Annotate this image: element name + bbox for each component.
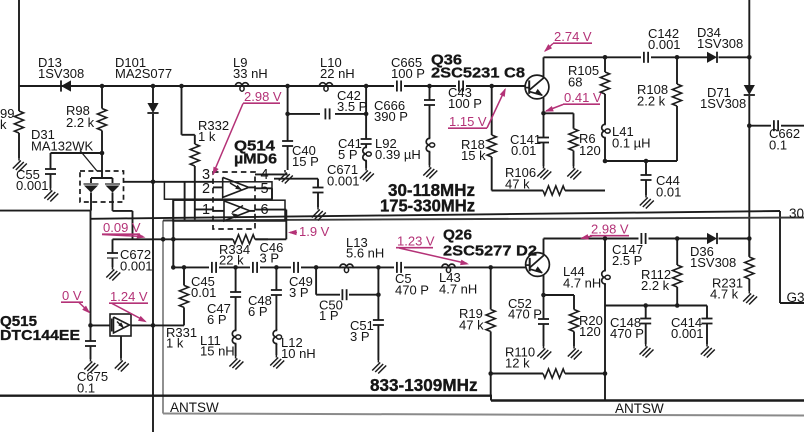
svg-text:3 P: 3 P bbox=[260, 251, 280, 266]
svg-text:5 P: 5 P bbox=[338, 147, 358, 162]
svg-text:0.41 V: 0.41 V bbox=[564, 90, 602, 105]
svg-text:ANTSW: ANTSW bbox=[170, 400, 219, 415]
svg-text:15 P: 15 P bbox=[292, 154, 319, 169]
svg-text:DTC144EE: DTC144EE bbox=[0, 327, 80, 344]
svg-text:3.5 P: 3.5 P bbox=[337, 99, 367, 114]
svg-text:0.001: 0.001 bbox=[327, 174, 360, 189]
svg-text:3 P: 3 P bbox=[350, 329, 370, 344]
svg-text:0.01: 0.01 bbox=[656, 185, 681, 200]
svg-text:2.2 k: 2.2 k bbox=[641, 278, 670, 293]
svg-text:300: 300 bbox=[789, 206, 804, 221]
svg-text:6 P: 6 P bbox=[207, 312, 227, 327]
svg-text:470 P: 470 P bbox=[395, 283, 429, 298]
svg-text:47 k: 47 k bbox=[505, 177, 530, 192]
svg-text:833-1309MHz: 833-1309MHz bbox=[370, 375, 478, 395]
svg-text:4.7 nH: 4.7 nH bbox=[439, 282, 477, 297]
svg-text:1.9 V: 1.9 V bbox=[299, 224, 330, 239]
svg-text:1SV308: 1SV308 bbox=[697, 36, 743, 51]
svg-text:100 P: 100 P bbox=[391, 66, 425, 81]
svg-text:0.39 µH: 0.39 µH bbox=[375, 147, 421, 162]
svg-text:15 nH: 15 nH bbox=[200, 344, 235, 359]
svg-text:2.2 k: 2.2 k bbox=[66, 115, 95, 130]
svg-text:0.01: 0.01 bbox=[511, 143, 536, 158]
svg-text:22 k: 22 k bbox=[219, 253, 244, 268]
svg-text:2: 2 bbox=[202, 181, 210, 197]
svg-text:0.001: 0.001 bbox=[16, 178, 49, 193]
svg-text:G3: G3 bbox=[787, 290, 804, 305]
svg-text:0.01: 0.01 bbox=[191, 285, 216, 300]
svg-text:120: 120 bbox=[579, 143, 601, 158]
svg-text:15 k: 15 k bbox=[461, 148, 486, 163]
svg-text:Q26: Q26 bbox=[443, 227, 472, 244]
svg-text:22 nH: 22 nH bbox=[320, 66, 355, 81]
svg-text:1SV308: 1SV308 bbox=[700, 96, 746, 111]
svg-text:1 P: 1 P bbox=[319, 308, 339, 323]
svg-text:0.001: 0.001 bbox=[671, 326, 704, 341]
svg-text:0.1: 0.1 bbox=[77, 381, 95, 396]
svg-text:ANTSW: ANTSW bbox=[615, 401, 664, 416]
svg-text:0.1: 0.1 bbox=[769, 138, 787, 153]
svg-text:33 nH: 33 nH bbox=[233, 66, 268, 81]
svg-text:µMD6: µMD6 bbox=[234, 151, 277, 168]
svg-text:2.98 V: 2.98 V bbox=[244, 89, 282, 104]
svg-text:100 P: 100 P bbox=[448, 96, 482, 111]
svg-text:0.09 V: 0.09 V bbox=[103, 220, 141, 235]
svg-text:1 k: 1 k bbox=[166, 336, 184, 351]
svg-text:MA132WK: MA132WK bbox=[31, 139, 93, 154]
svg-text:175-330MHz: 175-330MHz bbox=[380, 196, 475, 216]
svg-text:k: k bbox=[0, 117, 7, 132]
svg-text:1SV308: 1SV308 bbox=[690, 255, 736, 270]
svg-text:1: 1 bbox=[202, 202, 210, 218]
svg-text:2.98 V: 2.98 V bbox=[591, 222, 629, 237]
svg-text:5.6 nH: 5.6 nH bbox=[346, 246, 384, 261]
svg-text:0 V: 0 V bbox=[62, 288, 82, 303]
svg-text:MA2S077: MA2S077 bbox=[115, 66, 172, 81]
svg-text:2.74 V: 2.74 V bbox=[554, 29, 592, 44]
svg-text:10 nH: 10 nH bbox=[281, 346, 316, 361]
svg-text:2SC5277 D2: 2SC5277 D2 bbox=[443, 243, 537, 260]
svg-text:1SV308: 1SV308 bbox=[38, 66, 84, 81]
svg-text:4.7 nH: 4.7 nH bbox=[563, 276, 601, 291]
svg-text:6 P: 6 P bbox=[248, 304, 268, 319]
svg-text:1.23 V: 1.23 V bbox=[397, 234, 435, 249]
svg-text:470 P: 470 P bbox=[610, 326, 644, 341]
svg-text:5: 5 bbox=[261, 181, 269, 197]
svg-text:3 P: 3 P bbox=[289, 285, 309, 300]
svg-text:0.001: 0.001 bbox=[120, 259, 153, 274]
svg-text:47 k: 47 k bbox=[459, 318, 484, 333]
svg-text:1.15 V: 1.15 V bbox=[449, 114, 487, 129]
svg-text:1.24 V: 1.24 V bbox=[110, 289, 148, 304]
svg-text:4.7 k: 4.7 k bbox=[710, 287, 739, 302]
svg-text:6: 6 bbox=[261, 202, 269, 218]
svg-text:2SC5231 C8: 2SC5231 C8 bbox=[431, 65, 525, 82]
svg-text:0.1 µH: 0.1 µH bbox=[612, 136, 651, 151]
svg-text:120: 120 bbox=[579, 324, 601, 339]
svg-text:1 k: 1 k bbox=[198, 129, 216, 144]
svg-text:2.2 k: 2.2 k bbox=[637, 94, 666, 109]
svg-text:2.5 P: 2.5 P bbox=[612, 253, 642, 268]
svg-text:0.001: 0.001 bbox=[648, 37, 681, 52]
svg-text:12 k: 12 k bbox=[505, 356, 530, 371]
svg-text:68: 68 bbox=[568, 75, 582, 90]
svg-text:470 P: 470 P bbox=[508, 307, 542, 322]
svg-text:390 P: 390 P bbox=[374, 109, 408, 124]
